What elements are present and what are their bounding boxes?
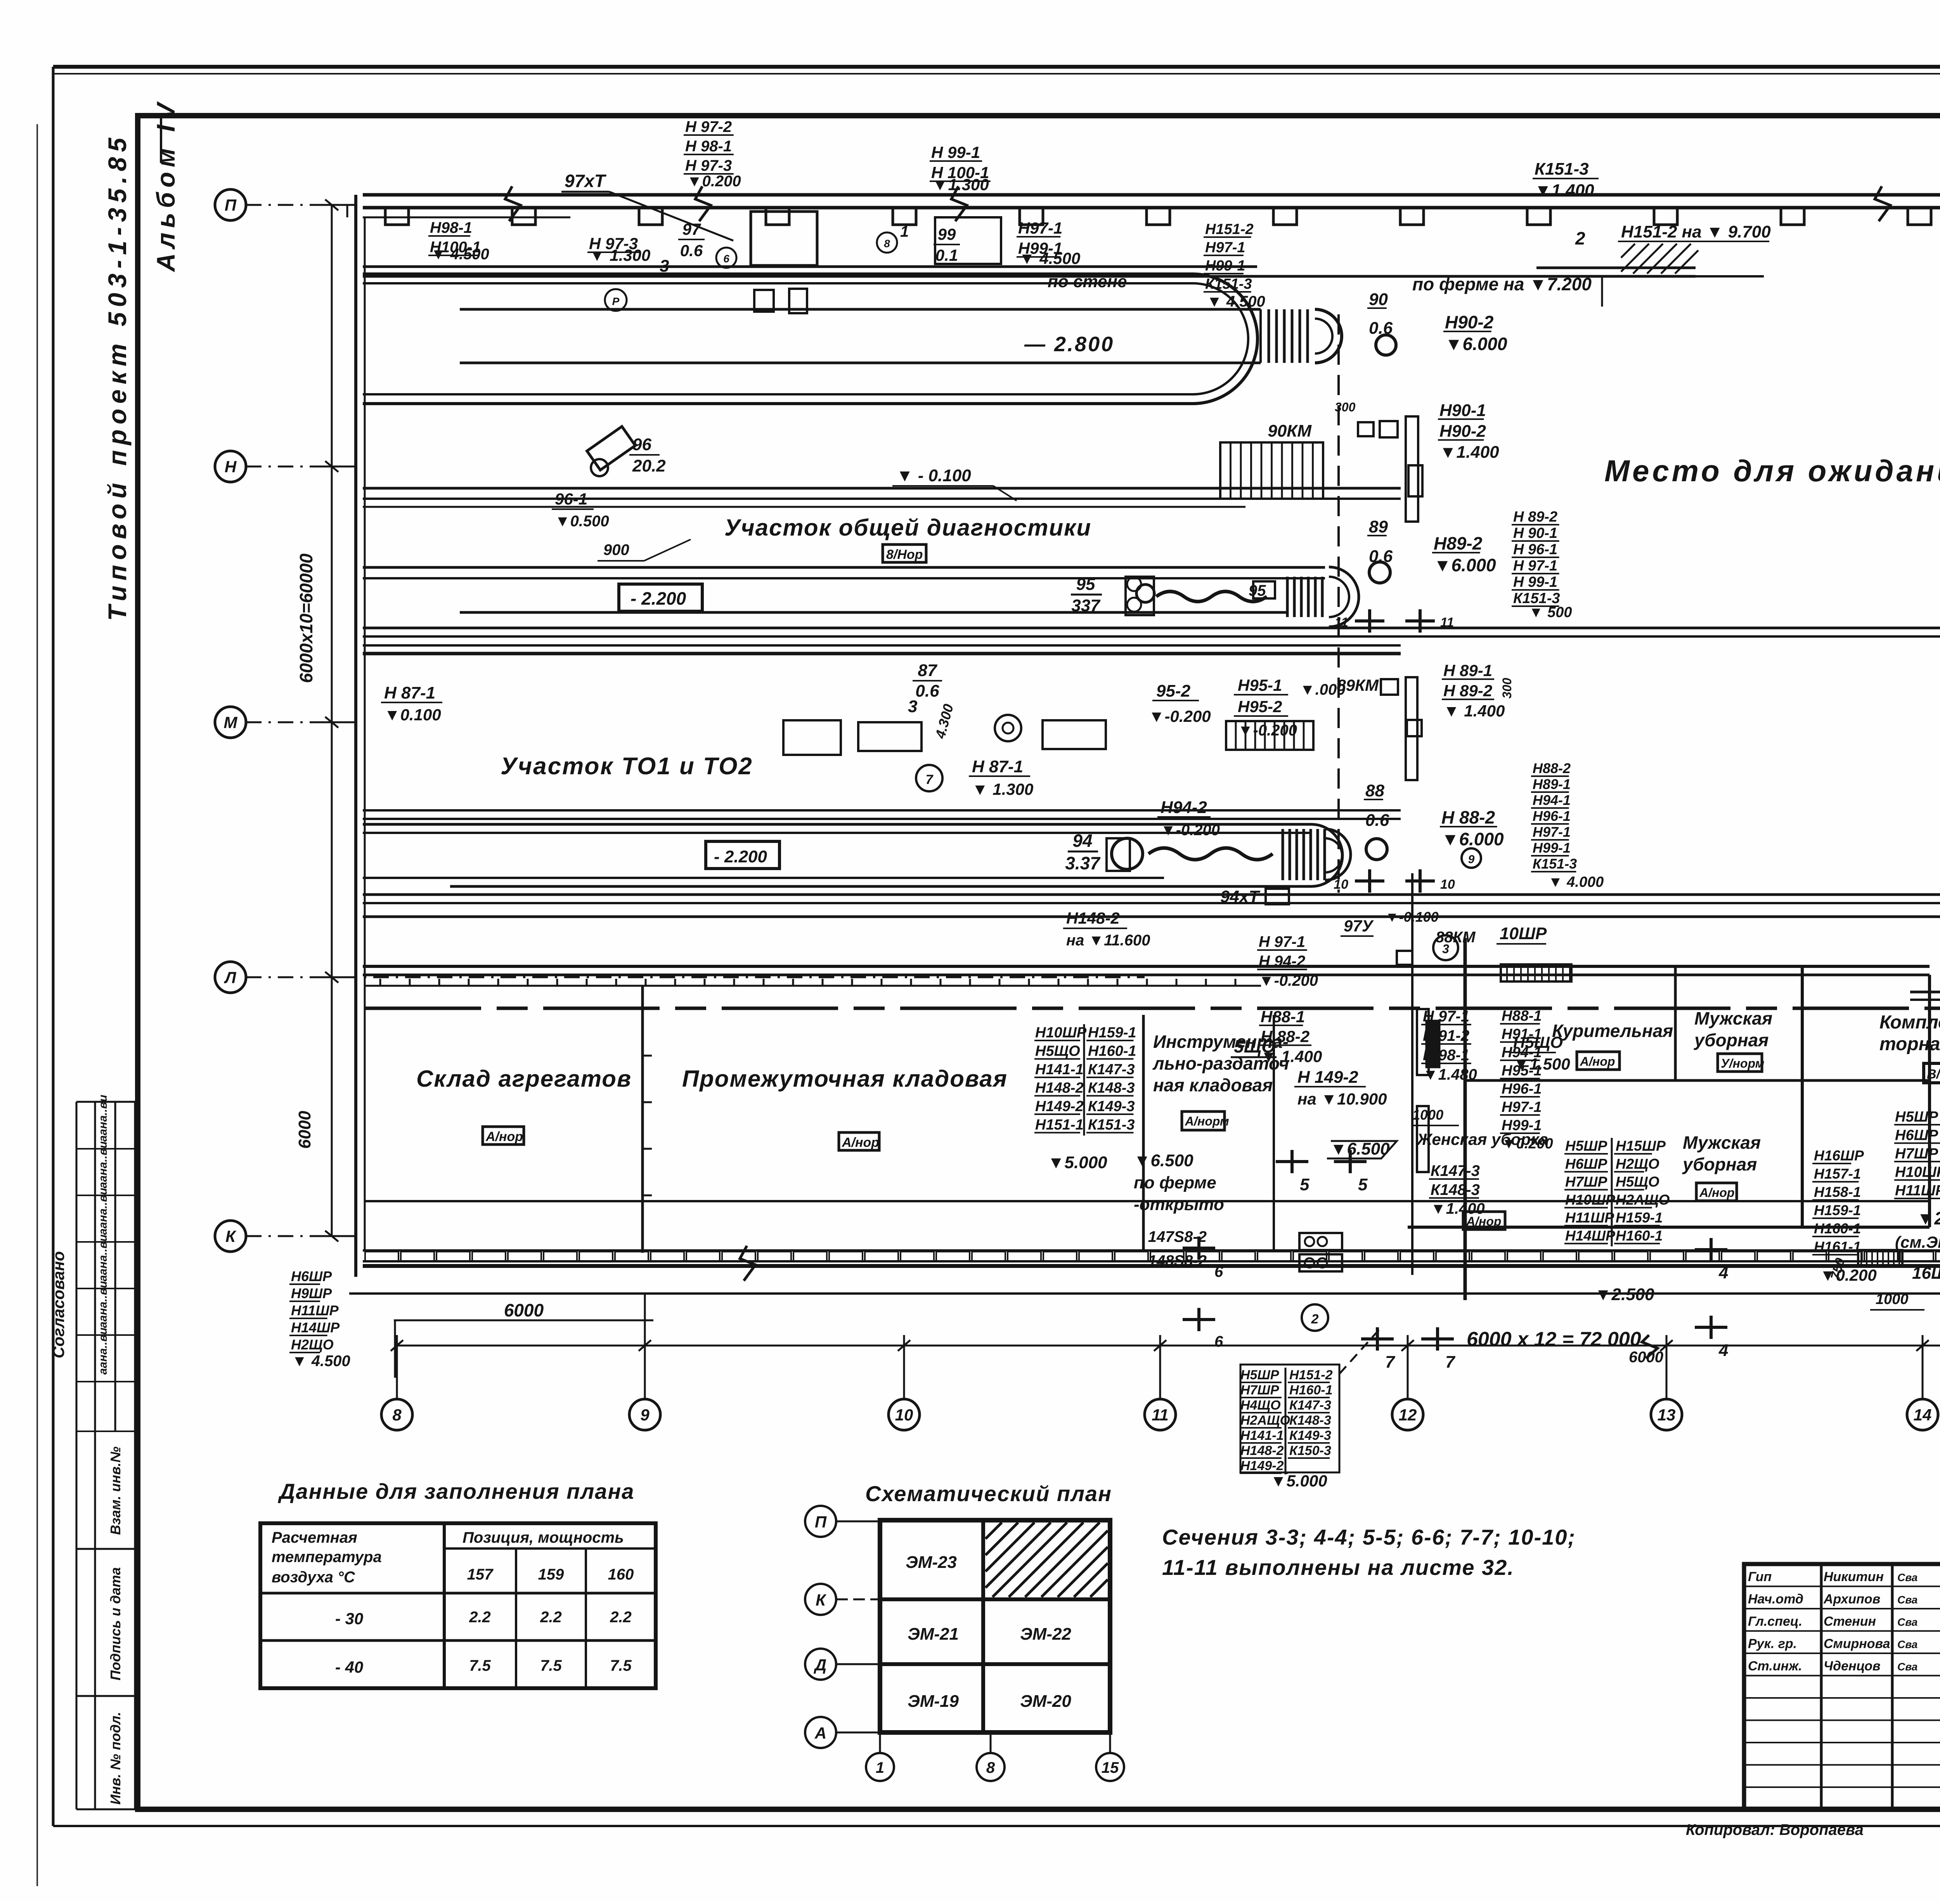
svg-text:Рук. гр.: Рук. гр. [1748, 1637, 1797, 1651]
svg-text:аана..ви: аана..ви [97, 1328, 109, 1375]
svg-text:300: 300 [1335, 400, 1356, 414]
svg-text:4: 4 [1718, 1263, 1728, 1282]
svg-text:Н141-1: Н141-1 [1240, 1428, 1284, 1443]
svg-text:торная подстанция: торная подстанция [1879, 1034, 1940, 1054]
svg-text:900: 900 [603, 541, 629, 558]
svg-text:воздуха °С: воздуха °С [272, 1569, 355, 1586]
svg-text:Н 98-1: Н 98-1 [1423, 1047, 1469, 1064]
svg-text:ЭМ-22: ЭМ-22 [1020, 1625, 1071, 1644]
svg-text:- 30: - 30 [335, 1609, 363, 1628]
svg-text:Склад агрегатов: Склад агрегатов [416, 1066, 632, 1092]
svg-text:▼6.500: ▼6.500 [1134, 1151, 1193, 1170]
svg-text:Н95-1: Н95-1 [1502, 1063, 1542, 1079]
svg-text:Н151-2 на ▼ 9.700: Н151-2 на ▼ 9.700 [1621, 222, 1771, 241]
svg-text:▼-0.200: ▼-0.200 [1259, 972, 1318, 989]
svg-text:Н88-2: Н88-2 [1533, 760, 1571, 776]
svg-text:Н97-1: Н97-1 [1502, 1099, 1542, 1115]
svg-text:8: 8 [884, 238, 890, 250]
svg-text:▼5.000: ▼5.000 [1270, 1472, 1327, 1490]
svg-text:К149-3: К149-3 [1088, 1098, 1135, 1115]
svg-text:Н4ЩО: Н4ЩО [1240, 1398, 1281, 1413]
svg-text:95: 95 [1076, 575, 1095, 594]
svg-text:337: 337 [1071, 596, 1101, 615]
svg-text:А/нор: А/нор [842, 1135, 879, 1150]
svg-text:ЭМ-20: ЭМ-20 [1020, 1692, 1071, 1711]
svg-text:Сва: Сва [1897, 1571, 1917, 1583]
svg-text:▼ 500: ▼ 500 [1529, 604, 1572, 621]
svg-text:Сва: Сва [1897, 1661, 1917, 1673]
svg-text:7.5: 7.5 [540, 1657, 562, 1674]
svg-text:Н11ШР: Н11ШР [1565, 1210, 1614, 1226]
svg-text:(см.ЭМ-5,6): (см.ЭМ-5,6) [1895, 1233, 1940, 1251]
svg-text:Позиция, мощность: Позиция, мощность [462, 1529, 624, 1546]
svg-text:Н2АЩО: Н2АЩО [1616, 1192, 1670, 1208]
svg-text:6000х10=60000: 6000х10=60000 [296, 553, 316, 683]
svg-text:Н 90-1: Н 90-1 [1513, 525, 1557, 541]
svg-text:90: 90 [1369, 290, 1388, 309]
svg-text:Н 149-2: Н 149-2 [1297, 1068, 1358, 1087]
svg-text:К148-3: К148-3 [1289, 1413, 1331, 1428]
svg-text:Комплектная трансформа-: Комплектная трансформа- [1879, 1012, 1940, 1033]
svg-text:6000: 6000 [295, 1111, 314, 1149]
svg-text:Н10ШР: Н10ШР [1035, 1025, 1087, 1041]
svg-text:Н96-1: Н96-1 [1502, 1081, 1542, 1097]
svg-text:по ферме на ▼7.200: по ферме на ▼7.200 [1412, 274, 1592, 294]
svg-text:8/Нор: 8/Нор [886, 547, 923, 562]
svg-text:Н96-1: Н96-1 [1533, 808, 1571, 824]
svg-text:В/норм: В/норм [1927, 1067, 1940, 1082]
svg-text:11: 11 [1335, 615, 1348, 630]
svg-text:уборная: уборная [1694, 1030, 1769, 1050]
svg-text:Сва: Сва [1897, 1616, 1917, 1628]
svg-text:3.37: 3.37 [1065, 853, 1101, 873]
svg-text:99: 99 [938, 225, 956, 243]
svg-text:Н88-1: Н88-1 [1261, 1007, 1305, 1026]
svg-text:Н9ШР: Н9ШР [291, 1285, 332, 1301]
svg-text:10: 10 [895, 1406, 913, 1424]
svg-text:0.6: 0.6 [915, 681, 939, 701]
svg-text:А/нор: А/нор [1580, 1054, 1615, 1068]
svg-text:Расчетная: Расчетная [272, 1529, 357, 1546]
svg-text:Курительная: Курительная [1552, 1021, 1673, 1041]
svg-text:Сва: Сва [1897, 1594, 1917, 1606]
svg-text:14: 14 [1914, 1406, 1932, 1424]
svg-text:Н158-1: Н158-1 [1814, 1184, 1861, 1200]
svg-text:аана..ви: аана..ви [97, 1141, 109, 1188]
svg-text:на ▼10.900: на ▼10.900 [1297, 1090, 1387, 1108]
svg-text:Н94-1: Н94-1 [1533, 792, 1571, 808]
svg-text:Н 99-1: Н 99-1 [1513, 574, 1557, 590]
svg-text:Н160-1: Н160-1 [1088, 1043, 1136, 1060]
svg-text:Л: Л [224, 968, 237, 987]
svg-text:Н 91-2: Н 91-2 [1423, 1027, 1469, 1044]
svg-text:К147-3: К147-3 [1289, 1398, 1331, 1413]
svg-text:87: 87 [918, 661, 938, 680]
svg-text:Н 97-1: Н 97-1 [1513, 558, 1557, 574]
svg-text:Архипов: Архипов [1823, 1592, 1880, 1607]
svg-text:▼0.200: ▼0.200 [687, 173, 741, 190]
svg-text:Н97-1: Н97-1 [1533, 824, 1571, 840]
svg-text:Копировал: Воропаева: Копировал: Воропаева [1686, 1821, 1864, 1838]
svg-text:9: 9 [1468, 853, 1475, 866]
svg-text:16ШР: 16ШР [1912, 1264, 1940, 1283]
svg-text:Н159-1: Н159-1 [1814, 1202, 1861, 1218]
svg-text:Н2ЩО: Н2ЩО [1616, 1156, 1659, 1172]
svg-text:Н94-1: Н94-1 [1502, 1044, 1542, 1061]
svg-text:Смирнова: Смирнова [1824, 1637, 1890, 1651]
svg-text:12: 12 [1399, 1406, 1417, 1424]
svg-text:Мужская: Мужская [1683, 1132, 1761, 1153]
svg-text:11: 11 [1440, 615, 1454, 630]
svg-text:▼2.500: ▼2.500 [1917, 1208, 1940, 1228]
svg-text:▼-0.200: ▼-0.200 [1161, 822, 1220, 839]
svg-text:Н 88-2: Н 88-2 [1441, 807, 1495, 827]
svg-text:▼ 4.500: ▼ 4.500 [1019, 249, 1080, 267]
svg-text:3: 3 [908, 697, 917, 716]
svg-text:- 40: - 40 [335, 1658, 363, 1676]
svg-text:Н97-1: Н97-1 [1205, 239, 1245, 256]
svg-text:Согласовано: Согласовано [49, 1251, 68, 1358]
svg-text:Н 89-1: Н 89-1 [1443, 661, 1492, 680]
svg-text:Н5ШР: Н5ШР [1565, 1138, 1607, 1154]
svg-text:Типовой проект 503-1-35.85: Типовой проект 503-1-35.85 [103, 133, 132, 621]
svg-text:90КМ: 90КМ [1268, 421, 1312, 440]
svg-text:У/норм: У/норм [1721, 1056, 1765, 1070]
svg-text:Н7ШР: Н7ШР [1895, 1146, 1938, 1162]
svg-text:0.6: 0.6 [1369, 319, 1393, 338]
svg-text:89КМ: 89КМ [1337, 676, 1379, 694]
svg-text:Н99-1: Н99-1 [1533, 840, 1571, 856]
svg-text:▼5.000: ▼5.000 [1048, 1153, 1107, 1172]
svg-text:Н148-2: Н148-2 [1035, 1080, 1084, 1096]
svg-text:Место для ожидания: Место для ожидания [1604, 454, 1940, 488]
svg-text:20.2: 20.2 [632, 456, 666, 475]
svg-text:Н2АЩО: Н2АЩО [1240, 1413, 1290, 1428]
svg-text:Н5ШР: Н5ШР [1240, 1368, 1279, 1382]
svg-text:300: 300 [1500, 678, 1514, 699]
svg-text:11: 11 [1152, 1406, 1169, 1424]
svg-text:96: 96 [632, 435, 651, 454]
svg-text:0.6: 0.6 [1369, 547, 1393, 566]
svg-text:97хТ: 97хТ [565, 171, 607, 191]
svg-text:▼0.200: ▼0.200 [1502, 1136, 1553, 1152]
svg-text:Стенин: Стенин [1824, 1614, 1876, 1629]
svg-text:89: 89 [1369, 517, 1388, 536]
svg-text:88КМ: 88КМ [1436, 929, 1476, 946]
svg-text:ЭМ-23: ЭМ-23 [906, 1553, 957, 1572]
svg-text:Н151-1: Н151-1 [1035, 1117, 1084, 1133]
svg-text:ная кладовая: ная кладовая [1153, 1075, 1273, 1095]
svg-text:2.2: 2.2 [469, 1609, 491, 1626]
svg-text:- 2.200: - 2.200 [714, 847, 767, 866]
svg-text:Н 98-1: Н 98-1 [685, 138, 732, 155]
svg-text:Схематический план: Схематический план [865, 1481, 1112, 1506]
svg-text:Д: Д [814, 1656, 826, 1674]
svg-text:▼6.000: ▼6.000 [1441, 829, 1504, 849]
svg-text:▼1.400: ▼1.400 [1535, 181, 1594, 200]
svg-text:Н99-1: Н99-1 [1205, 258, 1245, 274]
svg-text:Н94-2: Н94-2 [1161, 798, 1207, 817]
svg-text:Н 88-2: Н 88-2 [1261, 1027, 1309, 1046]
svg-text:Н98-1: Н98-1 [430, 219, 472, 236]
svg-text:аана..ви: аана..ви [97, 1281, 109, 1328]
svg-text:2.2: 2.2 [540, 1609, 562, 1626]
svg-text:95: 95 [1249, 582, 1266, 599]
svg-text:157: 157 [467, 1566, 494, 1583]
svg-text:Н91-1: Н91-1 [1502, 1026, 1542, 1042]
svg-text:Н90-1: Н90-1 [1439, 401, 1486, 420]
svg-text:Никитин: Никитин [1824, 1569, 1884, 1584]
svg-text:Н5ШР: Н5ШР [1895, 1109, 1938, 1125]
svg-text:Н6ШР: Н6ШР [1565, 1156, 1607, 1172]
svg-text:Н 97-3: Н 97-3 [685, 157, 732, 174]
svg-text:▼6.000: ▼6.000 [1445, 334, 1507, 354]
svg-text:6: 6 [723, 253, 729, 265]
svg-text:Н149-2: Н149-2 [1240, 1458, 1284, 1473]
svg-text:Гип: Гип [1748, 1569, 1772, 1584]
svg-text:К148-3: К148-3 [1431, 1181, 1480, 1198]
svg-text:Н149-2: Н149-2 [1035, 1098, 1084, 1115]
svg-text:Р: Р [612, 295, 620, 307]
svg-text:Н160-1: Н160-1 [1814, 1221, 1861, 1236]
svg-text:А/нор: А/нор [1699, 1186, 1734, 1200]
svg-text:7: 7 [1445, 1353, 1456, 1372]
svg-text:Н90-2: Н90-2 [1445, 312, 1494, 332]
svg-text:▼ 1.300: ▼ 1.300 [589, 246, 650, 264]
svg-text:160: 160 [608, 1566, 634, 1583]
svg-text:Н14ШР: Н14ШР [291, 1320, 340, 1335]
svg-text:П: П [225, 196, 237, 214]
svg-text:Н15ШР: Н15ШР [1616, 1138, 1666, 1154]
svg-text:температура: температура [272, 1549, 382, 1566]
svg-text:- 2.200: - 2.200 [630, 588, 686, 609]
svg-text:А/норм: А/норм [1185, 1114, 1229, 1128]
svg-text:П: П [815, 1513, 827, 1531]
svg-text:аана..ви: аана..ви [97, 1235, 109, 1281]
svg-text:К: К [225, 1227, 237, 1245]
svg-text:▼ 1.300: ▼ 1.300 [972, 780, 1033, 798]
svg-text:Н11ШР: Н11ШР [1895, 1183, 1940, 1199]
svg-text:159: 159 [538, 1566, 564, 1583]
svg-text:2.2: 2.2 [610, 1609, 632, 1626]
svg-text:Участок общей диагностики: Участок общей диагностики [724, 515, 1091, 541]
svg-text:Н157-1: Н157-1 [1814, 1166, 1861, 1182]
svg-text:97У: 97У [1344, 917, 1374, 935]
svg-text:-открыто: -открыто [1134, 1195, 1224, 1214]
svg-text:6: 6 [1214, 1333, 1223, 1350]
svg-text:15: 15 [1102, 1759, 1119, 1776]
svg-text:▼-0.200: ▼-0.200 [1148, 707, 1211, 725]
svg-text:▼ 1.400: ▼ 1.400 [1261, 1047, 1322, 1065]
svg-text:Н 99-1: Н 99-1 [931, 143, 980, 161]
svg-text:0.1: 0.1 [935, 246, 958, 264]
svg-text:Н6ШР: Н6ШР [291, 1268, 332, 1284]
svg-text:Н 87-1: Н 87-1 [972, 757, 1023, 776]
svg-text:по ферме: по ферме [1134, 1173, 1216, 1192]
svg-text:А/нор: А/нор [485, 1129, 523, 1144]
svg-text:▼ 4.500: ▼ 4.500 [1207, 293, 1265, 310]
svg-text:3: 3 [660, 257, 669, 276]
svg-text:6: 6 [1214, 1263, 1223, 1280]
svg-text:▼1.400: ▼1.400 [1439, 442, 1499, 461]
svg-text:Н88-1: Н88-1 [1502, 1008, 1542, 1024]
svg-text:1000: 1000 [1412, 1107, 1443, 1123]
svg-text:Промежуточная кладовая: Промежуточная кладовая [682, 1066, 1008, 1092]
svg-text:Ст.инж.: Ст.инж. [1748, 1659, 1802, 1673]
svg-text:К151-3: К151-3 [1088, 1117, 1135, 1133]
svg-text:Мужская: Мужская [1694, 1008, 1772, 1028]
svg-text:▼-0.100: ▼-0.100 [1385, 909, 1439, 925]
svg-text:Н151-2: Н151-2 [1205, 221, 1254, 238]
svg-text:ЭМ-19: ЭМ-19 [908, 1692, 959, 1711]
svg-text:Н: Н [225, 458, 237, 476]
svg-text:Н160-1: Н160-1 [1289, 1383, 1333, 1398]
svg-text:Гл.спец.: Гл.спец. [1748, 1614, 1802, 1629]
svg-text:8: 8 [986, 1759, 995, 1776]
svg-text:уборная: уборная [1682, 1154, 1757, 1174]
svg-text:▼ 4.000: ▼ 4.000 [1548, 874, 1604, 890]
svg-text:▼-0.200: ▼-0.200 [1238, 722, 1297, 739]
svg-text:К: К [816, 1591, 827, 1609]
svg-text:1: 1 [900, 223, 909, 240]
svg-text:— 2.800: — 2.800 [1024, 333, 1114, 356]
svg-text:▼ - 0.100: ▼ - 0.100 [896, 466, 971, 485]
svg-text:Н14ШР: Н14ШР [1565, 1228, 1615, 1243]
svg-text:Н95-2: Н95-2 [1238, 697, 1282, 716]
svg-text:95-2: 95-2 [1156, 681, 1191, 701]
svg-text:94: 94 [1072, 831, 1092, 851]
svg-text:Н5ЩО: Н5ЩО [1616, 1174, 1659, 1190]
svg-text:Н7ШР: Н7ШР [1565, 1174, 1607, 1190]
svg-text:К151-3: К151-3 [1533, 856, 1577, 872]
svg-text:Нач.отд: Нач.отд [1748, 1592, 1803, 1607]
svg-text:аана..ви: аана..ви [97, 1095, 109, 1142]
svg-text:Н11ШР: Н11ШР [291, 1302, 339, 1318]
svg-text:К147-3: К147-3 [1431, 1162, 1480, 1179]
svg-text:6000 х 12 = 72 000: 6000 х 12 = 72 000 [1467, 1328, 1641, 1351]
svg-text:2: 2 [1311, 1312, 1319, 1327]
svg-text:Н89-1: Н89-1 [1533, 776, 1571, 792]
svg-text:88: 88 [1365, 781, 1384, 800]
svg-text:4: 4 [1718, 1341, 1728, 1360]
svg-text:Н95-1: Н95-1 [1238, 676, 1282, 694]
svg-text:0.6: 0.6 [680, 241, 703, 260]
svg-text:7: 7 [926, 772, 934, 787]
svg-text:10: 10 [1440, 877, 1455, 892]
svg-text:М: М [224, 713, 238, 732]
svg-text:13: 13 [1658, 1406, 1676, 1424]
svg-text:Н16ШР: Н16ШР [1814, 1148, 1864, 1164]
svg-text:Н160-1: Н160-1 [1616, 1228, 1663, 1243]
svg-text:Н7ШР: Н7ШР [1240, 1383, 1279, 1398]
svg-text:К149-3: К149-3 [1289, 1428, 1331, 1443]
svg-text:7: 7 [1385, 1353, 1396, 1372]
svg-text:▼ 4.500: ▼ 4.500 [431, 246, 489, 263]
svg-text:Н10ШР: Н10ШР [1565, 1192, 1615, 1208]
svg-text:по стене: по стене [1048, 272, 1127, 291]
svg-text:6000: 6000 [504, 1300, 544, 1320]
svg-text:7.5: 7.5 [610, 1657, 632, 1674]
svg-text:Альбом IV: Альбом IV [151, 98, 180, 272]
svg-text:▼ 1.400: ▼ 1.400 [1443, 702, 1505, 720]
svg-text:Н 97-2: Н 97-2 [685, 118, 732, 135]
svg-text:Н161-1: Н161-1 [1814, 1239, 1861, 1255]
svg-text:А: А [814, 1724, 826, 1742]
svg-text:97: 97 [682, 220, 701, 238]
svg-text:▼6.500: ▼6.500 [1330, 1139, 1390, 1158]
svg-text:2: 2 [1575, 228, 1585, 248]
svg-text:Инв. № подл.: Инв. № подл. [107, 1712, 123, 1805]
svg-text:Сечения 3-3; 4-4; 5-5; 6-6; 7-: Сечения 3-3; 4-4; 5-5; 6-6; 7-7; 10-10; [1162, 1525, 1576, 1549]
svg-text:Н90-2: Н90-2 [1439, 422, 1486, 441]
svg-text:Данные для заполнения плана: Данные для заполнения плана [278, 1479, 634, 1503]
svg-text:▼0.100: ▼0.100 [384, 706, 441, 724]
svg-text:Н 89-2: Н 89-2 [1513, 509, 1557, 525]
svg-text:5: 5 [1300, 1175, 1309, 1194]
svg-text:147S8-2: 147S8-2 [1148, 1228, 1207, 1245]
svg-text:Н5ЩО: Н5ЩО [1035, 1043, 1080, 1060]
svg-text:10: 10 [1334, 877, 1348, 892]
svg-text:Н159-1: Н159-1 [1616, 1210, 1663, 1226]
svg-text:148S8-2: 148S8-2 [1148, 1252, 1207, 1269]
svg-text:Н 97-1: Н 97-1 [1259, 933, 1305, 950]
svg-text:Н 97-1: Н 97-1 [1423, 1008, 1469, 1025]
svg-text:К151-3: К151-3 [1535, 160, 1589, 179]
svg-text:Н 96-1: Н 96-1 [1513, 541, 1557, 558]
svg-text:▼1.300: ▼1.300 [932, 175, 989, 194]
svg-text:▼1.480: ▼1.480 [1423, 1066, 1477, 1083]
svg-text:Н89-2: Н89-2 [1434, 533, 1483, 553]
svg-text:К151-3: К151-3 [1205, 276, 1252, 292]
svg-text:Н 94-2: Н 94-2 [1259, 953, 1305, 970]
svg-text:Н159-1: Н159-1 [1088, 1025, 1136, 1041]
svg-text:К150-3: К150-3 [1289, 1443, 1331, 1458]
svg-text:Взам. инв.№: Взам. инв.№ [107, 1446, 123, 1535]
svg-text:Н148-2: Н148-2 [1240, 1443, 1284, 1458]
svg-text:Н151-2: Н151-2 [1289, 1368, 1333, 1382]
svg-text:Н 87-1: Н 87-1 [384, 683, 435, 702]
svg-text:Н99-1: Н99-1 [1502, 1117, 1542, 1134]
svg-text:▼6.000: ▼6.000 [1434, 555, 1496, 575]
svg-text:Сва: Сва [1897, 1639, 1917, 1651]
svg-text:Участок ТО1 и ТО2: Участок ТО1 и ТО2 [501, 753, 753, 780]
svg-text:▼0.500: ▼0.500 [555, 513, 609, 530]
svg-text:Н97-1: Н97-1 [1018, 219, 1062, 237]
svg-text:Н141-1: Н141-1 [1035, 1061, 1084, 1078]
svg-text:9: 9 [640, 1406, 650, 1424]
svg-text:5: 5 [1358, 1175, 1368, 1194]
svg-text:1: 1 [876, 1759, 884, 1776]
svg-text:Н 89-2: Н 89-2 [1443, 681, 1492, 700]
svg-text:Н2ЩО: Н2ЩО [291, 1337, 334, 1353]
svg-text:8: 8 [392, 1406, 402, 1424]
svg-text:Н6ШР: Н6ШР [1895, 1127, 1938, 1144]
svg-text:10ШР: 10ШР [1500, 924, 1547, 943]
svg-text:11-11 выполнены на листе 32.: 11-11 выполнены на листе 32. [1162, 1555, 1514, 1580]
svg-text:К148-3: К148-3 [1088, 1080, 1135, 1096]
svg-text:7.5: 7.5 [469, 1657, 491, 1674]
svg-text:на ▼11.600: на ▼11.600 [1066, 932, 1150, 949]
svg-text:Подпись и дата: Подпись и дата [107, 1567, 123, 1680]
svg-text:▼ 4.500: ▼ 4.500 [292, 1353, 350, 1370]
svg-text:0.6: 0.6 [1365, 811, 1389, 830]
svg-text:Чденцов: Чденцов [1824, 1659, 1881, 1673]
svg-text:ЭМ-21: ЭМ-21 [908, 1625, 959, 1644]
svg-text:аана..ви: аана..ви [97, 1188, 109, 1235]
svg-text:Н10ШР: Н10ШР [1895, 1164, 1940, 1181]
svg-text:К147-3: К147-3 [1088, 1061, 1135, 1078]
